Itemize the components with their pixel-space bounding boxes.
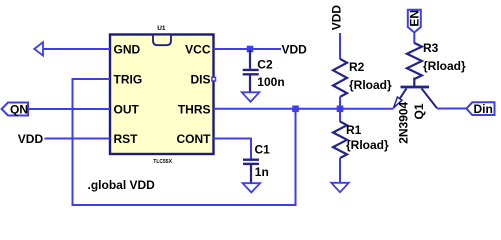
svg-text:{Rload}: {Rload}	[349, 78, 392, 92]
svg-text:GND: GND	[114, 43, 141, 57]
port EN	[408, 10, 421, 33]
output terminator arrow (GND pin)	[34, 42, 43, 55]
svg-text:Din: Din	[474, 102, 493, 116]
port QN	[2, 103, 28, 116]
wire THRS rail	[214, 108, 394, 110]
wire junction to R1	[339, 109, 341, 122]
svg-text:EN: EN	[408, 10, 422, 27]
junction at VCC / C2	[247, 46, 254, 53]
IC U1 body (TLC55X timer)	[110, 35, 214, 155]
wire GND pin to output terminator	[43, 48, 110, 50]
svg-text:{Rload}: {Rload}	[423, 59, 466, 73]
wire VDD label to RST pin	[45, 138, 111, 140]
svg-text:Q1: Q1	[412, 103, 426, 119]
svg-text:U1: U1	[157, 25, 166, 32]
wire right riser to THRS rail	[295, 109, 297, 206]
svg-text:VDD: VDD	[18, 132, 44, 146]
svg-text:R1: R1	[346, 123, 362, 137]
wire CONT pin to C1	[214, 139, 252, 159]
capacitor C2	[243, 50, 259, 93]
capacitor C1	[243, 160, 259, 184]
ground below R1	[331, 183, 348, 192]
wire VCC pin to VDD label	[214, 48, 282, 50]
resistor R3	[407, 43, 422, 79]
svg-text:C2: C2	[257, 58, 273, 72]
wire R3 to Q1 base	[413, 78, 415, 87]
svg-text:CONT: CONT	[177, 132, 212, 146]
svg-text:RST: RST	[114, 132, 139, 146]
svg-text:VDD: VDD	[282, 43, 308, 57]
IC U1 pin DIS open-pin marker	[212, 77, 216, 81]
svg-text:DIS: DIS	[190, 73, 210, 87]
svg-text:VDD: VDD	[330, 5, 344, 31]
svg-text:TLC55X: TLC55X	[153, 159, 172, 165]
wire R1 to ground	[339, 158, 341, 183]
junction R1 / R2	[337, 106, 344, 113]
wire Q1 collector to Din	[437, 108, 466, 110]
svg-text:THRS: THRS	[178, 103, 211, 117]
wire VDD to R2	[339, 33, 341, 59]
resistor R2	[333, 59, 347, 97]
svg-text:2N3904: 2N3904	[397, 101, 411, 143]
wire bottom rail	[72, 204, 296, 206]
wire EN to R3	[413, 33, 415, 44]
svg-text:100n: 100n	[257, 75, 284, 89]
transistor Q1	[394, 87, 438, 108]
svg-text:1n: 1n	[255, 165, 269, 179]
svg-text:{Rload}: {Rload}	[346, 138, 389, 152]
junction THRS / riser	[292, 106, 299, 113]
resistor R1	[333, 122, 347, 159]
ground below C1	[243, 183, 261, 192]
wire left rail vertical	[72, 78, 74, 205]
svg-text:.global VDD: .global VDD	[88, 178, 156, 192]
svg-text:TRIG: TRIG	[114, 73, 143, 87]
port Din	[466, 102, 494, 115]
svg-text:VCC: VCC	[185, 43, 211, 57]
wire QN to OUT pin	[28, 108, 110, 110]
svg-text:QN: QN	[10, 102, 28, 116]
IC U1 top notch	[153, 36, 171, 46]
svg-text:C1: C1	[255, 143, 271, 157]
svg-text:OUT: OUT	[114, 103, 140, 117]
ground below C2	[242, 92, 259, 102]
wire R2 to junction	[339, 97, 341, 109]
svg-text:R2: R2	[349, 60, 365, 74]
svg-text:R3: R3	[423, 41, 439, 55]
wire TRIG to left rail	[73, 78, 111, 80]
